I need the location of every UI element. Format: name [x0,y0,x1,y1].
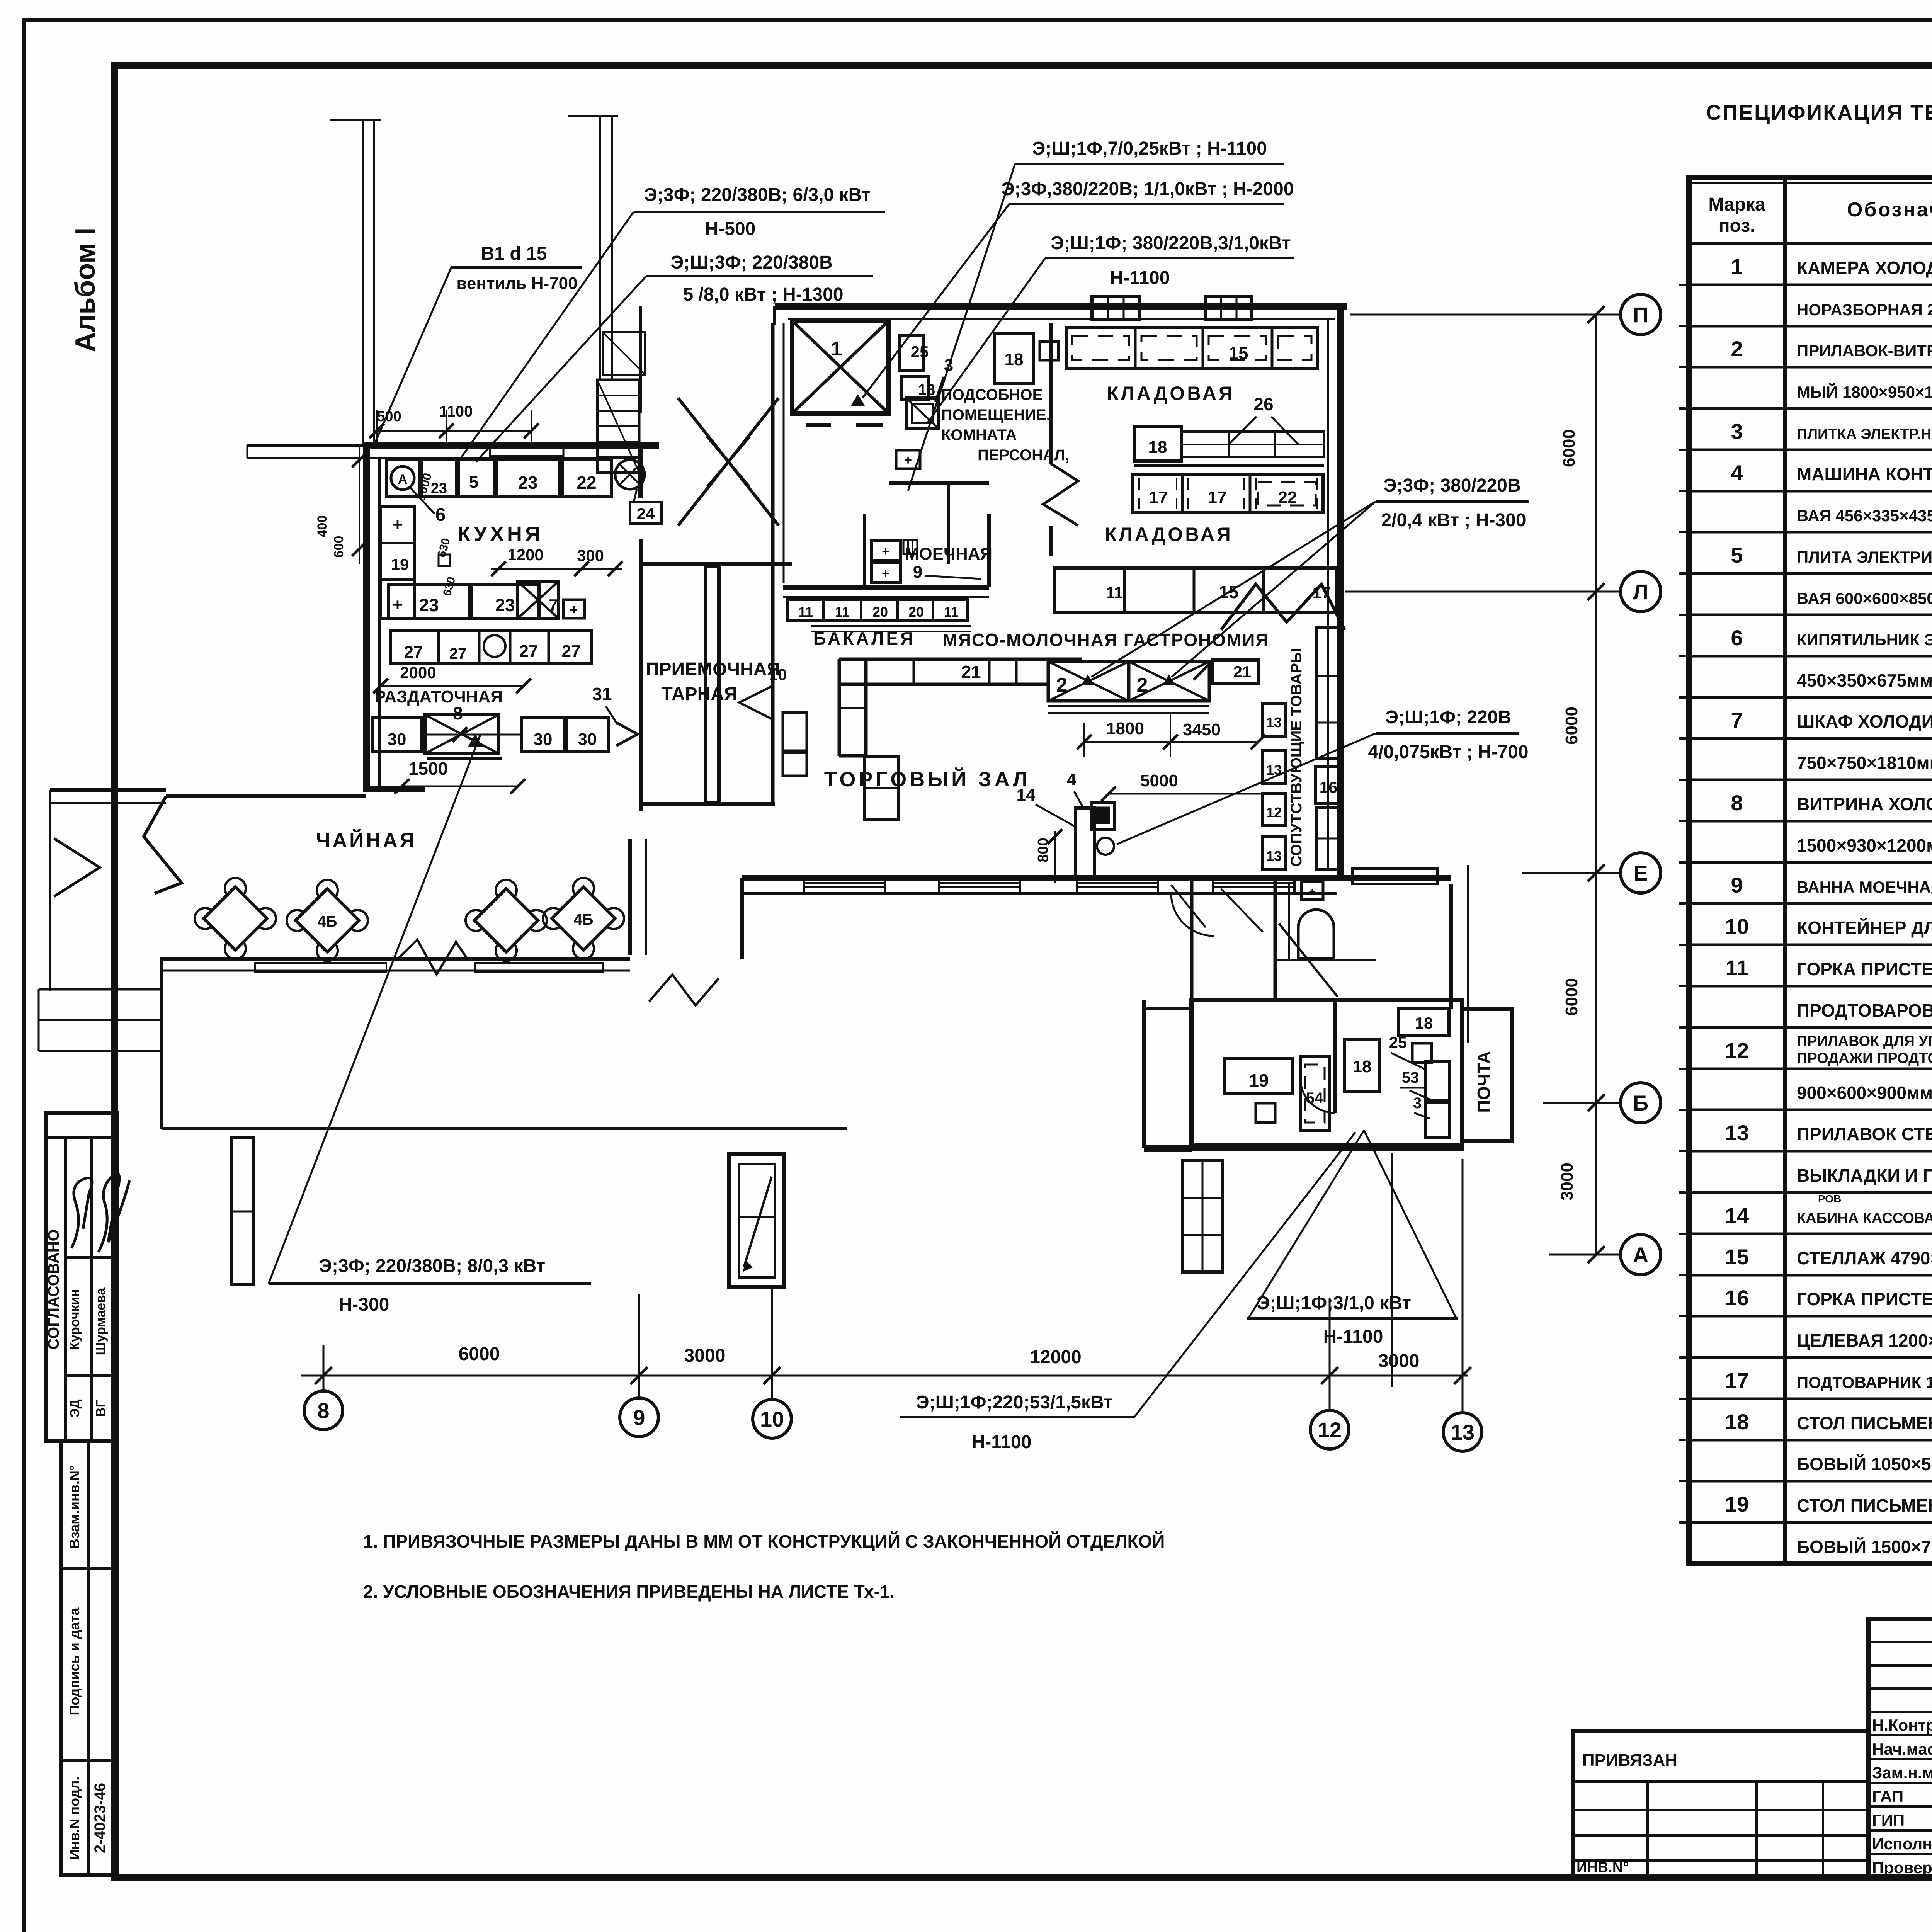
svg-text:6: 6 [435,505,446,525]
svg-text:СТОЛ ПИСЬМЕННЫЙ ОДНОТУМ-: СТОЛ ПИСЬМЕННЫЙ ОДНОТУМ- [1797,1413,1932,1433]
left break arrow [54,838,100,896]
svg-text:ПРОДАЖИ ПРОДТОВАРОВ: ПРОДАЖИ ПРОДТОВАРОВ [1797,1050,1932,1066]
svg-text:+: + [1309,886,1316,898]
label 24 box [630,502,662,524]
svg-text:СТЕЛЛАЖ 4790×1015×1900мм: СТЕЛЛАЖ 4790×1015×1900мм [1797,1248,1932,1268]
svg-text:1500: 1500 [408,759,448,779]
svg-text:27: 27 [562,642,581,661]
svg-text:+: + [882,544,889,559]
svg-text:21: 21 [961,662,981,682]
svg-text:900×600×900мм: 900×600×900мм [1797,1083,1932,1103]
svg-text:+: + [904,453,912,468]
svg-text:53: 53 [1402,1069,1419,1086]
svg-text:ГОРКА ПРИСТЕННАЯ МНОГО-: ГОРКА ПРИСТЕННАЯ МНОГО- [1797,1289,1932,1309]
svg-text:9: 9 [1731,873,1743,897]
svg-text:3000: 3000 [1558,1163,1577,1201]
svg-text:ЭД: ЭД [68,1399,82,1418]
svg-text:2: 2 [1137,674,1148,696]
svg-text:КАБИНА КАССОВАЯ 1400×800×1200: КАБИНА КАССОВАЯ 1400×800×1200 [1797,1210,1932,1226]
break zigzag right [1221,584,1345,630]
meat wall shelf row [1055,568,1337,612]
entrance porch axis 9-10 [729,1154,784,1287]
svg-text:5: 5 [1731,543,1743,567]
svg-text:РОВ: РОВ [1818,1193,1841,1205]
svg-text:8: 8 [317,1398,329,1423]
svg-text:24: 24 [637,505,655,523]
svg-text:ПЛИТКА ЭЛЕКТР.НАСТОЛЬНАЯ 1,0кВ: ПЛИТКА ЭЛЕКТР.НАСТОЛЬНАЯ 1,0кВт [1797,426,1932,442]
svg-text:ГАП: ГАП [1872,1787,1903,1805]
svg-text:6000: 6000 [1560,429,1578,467]
svg-text:СОПУТСТВУЮЩИЕ ТОВАРЫ: СОПУТСТВУЮЩИЕ ТОВАРЫ [1288,648,1305,867]
svg-text:МЯСО-МОЛОЧНАЯ ГАСТРОНОМИЯ: МЯСО-МОЛОЧНАЯ ГАСТРОНОМИЯ [943,630,1269,650]
svg-text:Э;3Ф; 220/380В; 8/0,3 кВт: Э;3Ф; 220/380В; 8/0,3 кВт [319,1256,545,1276]
svg-text:КЛАДОВАЯ: КЛАДОВАЯ [1107,383,1235,404]
svg-text:ПРИЛАВОК-ВИТРИНА ОХЛАЖДАЕ-: ПРИЛАВОК-ВИТРИНА ОХЛАЖДАЕ- [1797,342,1932,360]
kitchen top equipment row [386,460,419,497]
svg-text:ПРИЛАВОК СТЕКЛЯННЫЙ ДЛЯ: ПРИЛАВОК СТЕКЛЯННЫЙ ДЛЯ [1797,1124,1932,1144]
svg-text:11: 11 [1106,583,1123,602]
svg-text:ПРИЛАВОК ДЛЯ УПАКОВКИ И: ПРИЛАВОК ДЛЯ УПАКОВКИ И [1797,1033,1932,1049]
svg-text:Э;Ш;1Ф; 380/220В,3/1,0кВт: Э;Ш;1Ф; 380/220В,3/1,0кВт [1051,233,1291,253]
svg-text:Б: Б [1633,1091,1648,1115]
svg-text:10: 10 [769,665,787,684]
svg-text:ПОЧТА: ПОЧТА [1474,1051,1494,1113]
door arc pochta [1300,1078,1335,1113]
svg-text:750×750×1810мм 0,25кВт: 750×750×1810мм 0,25кВт [1797,753,1932,773]
svg-text:КОНТЕЙНЕР ДЛЯ ХЛЕБА: КОНТЕЙНЕР ДЛЯ ХЛЕБА [1797,918,1932,938]
svg-text:27: 27 [449,645,467,662]
svg-text:17: 17 [1725,1368,1749,1393]
vestibule walls [628,839,632,955]
svg-text:1. ПРИВЯЗОЧНЫЕ РАЗМЕРЫ ДАНЫ: 1. ПРИВЯЗОЧНЫЕ РАЗМЕРЫ ДАНЫ В ММ ОТ КОНС… [363,1531,1165,1551]
svg-text:Нач.мас: Нач.мас [1872,1740,1932,1758]
svg-text:Э;3Ф; 380/220В: Э;3Ф; 380/220В [1383,475,1520,496]
2-boxes with X [1048,662,1129,701]
box 16 and wall rack [1316,767,1342,804]
svg-text:поз.: поз. [1719,216,1755,236]
svg-text:ИНВ.N°: ИНВ.N° [1577,1859,1629,1876]
svg-text:1800: 1800 [1106,719,1144,738]
svg-text:Е: Е [1633,861,1648,885]
left strip: СОГЛАСОВАНО block [46,1113,117,1441]
svg-text:11: 11 [1725,956,1748,980]
svg-text:КУХНЯ: КУХНЯ [457,522,543,546]
svg-text:600: 600 [332,536,346,558]
svg-text:ГИП: ГИП [1872,1811,1905,1829]
svg-text:3000: 3000 [684,1345,726,1366]
right block top wall [775,303,1347,310]
svg-text:27: 27 [519,642,538,661]
wall between priem and bakaleya [771,323,775,806]
svg-text:ЧАЙНАЯ: ЧАЙНАЯ [316,829,417,852]
svg-text:6000: 6000 [459,1344,500,1364]
moechnaya room [783,585,989,590]
roof vent boxes on top wall [1092,297,1139,319]
svg-text:18: 18 [1148,438,1167,457]
svg-text:Инв.N подл.: Инв.N подл. [66,1777,82,1860]
cash cabin 14 [1076,808,1094,880]
stairwell east wall [639,306,642,413]
svg-text:30: 30 [578,730,597,749]
svg-text:4/0,075кВт ; Н-700: 4/0,075кВт ; Н-700 [1368,742,1528,762]
west wing wall [247,444,366,447]
svg-text:ТОРГОВЫЙ ЗАЛ: ТОРГОВЫЙ ЗАЛ [824,767,1031,791]
pochta interior [1225,1059,1293,1094]
svg-text:27: 27 [404,643,423,662]
svg-text:Зам.н.м.: Зам.н.м. [1872,1764,1932,1782]
svg-text:ВГ: ВГ [94,1400,108,1417]
svg-text:РАЗДАТОЧНАЯ: РАЗДАТОЧНАЯ [374,687,503,706]
svg-text:9: 9 [913,563,922,582]
svg-text:15: 15 [1228,343,1248,363]
svg-text:16: 16 [1320,778,1338,796]
chaynaya [166,794,366,798]
svg-text:1: 1 [1731,254,1743,279]
svg-text:КОМНАТА: КОМНАТА [941,427,1017,444]
svg-text:2: 2 [1056,674,1068,696]
svg-text:3000: 3000 [1378,1351,1420,1371]
svg-text:12000: 12000 [1030,1347,1081,1367]
svg-text:П: П [1633,303,1648,327]
svg-text:Н-1100: Н-1100 [972,1432,1032,1452]
row 17 17 22 [1133,474,1323,513]
right axes [1595,315,1597,1255]
svg-text:20: 20 [872,604,888,620]
extension line below pochta [1391,1153,1393,1387]
dim 1200 300 [491,568,622,570]
svg-text:25: 25 [911,343,929,361]
svg-text:18: 18 [1005,350,1024,369]
SE wing east wall [1449,884,1453,1009]
svg-text:2/0,4 кВт ; Н-300: 2/0,4 кВт ; Н-300 [1381,510,1526,531]
bread containers [783,713,807,751]
svg-text:17: 17 [1149,488,1168,507]
svg-text:Э;Ш;3Ф; 220/380В: Э;Ш;3Ф; 220/380В [670,252,833,273]
svg-text:1100: 1100 [439,403,473,420]
svg-text:3: 3 [1731,419,1743,444]
svg-text:Взам.инв.N°: Взам.инв.N° [66,1465,82,1549]
svg-text:ВАЯ 600×600×850мм 8,0кВт: ВАЯ 600×600×850мм 8,0кВт [1797,589,1932,607]
twin box below counter [864,757,898,819]
svg-text:23: 23 [495,595,515,615]
svg-text:Л: Л [1633,580,1648,604]
svg-text:300: 300 [577,546,604,565]
svg-text:14: 14 [1725,1203,1749,1228]
svg-text:22: 22 [577,473,596,493]
svg-text:450×350×675мм 3,0кВт: 450×350×675мм 3,0кВт [1797,670,1932,690]
svg-text:11: 11 [944,604,959,620]
svg-text:23: 23 [419,595,439,615]
svg-text:ПЕРСОНАЛ,: ПЕРСОНАЛ, [978,447,1070,464]
svg-text:18: 18 [1415,1014,1433,1032]
svg-text:КИПЯТИЛЬНИК ЭЛЕКТРИЧЕСКИЙ: КИПЯТИЛЬНИК ЭЛЕКТРИЧЕСКИЙ [1797,630,1932,649]
svg-text:4: 4 [1731,461,1743,485]
svg-text:Н-500: Н-500 [705,219,756,239]
svg-text:ВАННА МОЕЧНАЯ 630×630×860: ВАННА МОЕЧНАЯ 630×630×860 [1797,878,1932,896]
svg-text:ШКАФ ХОЛОДИЛЬНЫЙ: ШКАФ ХОЛОДИЛЬНЫЙ [1797,711,1932,731]
svg-text:ПЛИТА ЭЛЕКТРИЧЕСКАЯ БЫТО-: ПЛИТА ЭЛЕКТРИЧЕСКАЯ БЫТО- [1797,548,1932,566]
svg-text:26: 26 [1253,394,1273,414]
tarnaya wall bar [706,566,719,803]
svg-text:Э;Ш;1Ф;3/1,0 кВт: Э;Ш;1Ф;3/1,0 кВт [1257,1293,1411,1313]
desk 18 in podsobnoe [995,333,1033,383]
svg-text:Провер.: Провер. [1872,1859,1932,1877]
svg-text:4Б: 4Б [574,911,594,928]
svg-text:Э;Ш;1Ф,7/0,25кВт ; Н-1100: Э;Ш;1Ф,7/0,25кВт ; Н-1100 [1032,138,1267,159]
svg-text:13: 13 [1266,848,1282,864]
svg-text:Шурмаева: Шурмаева [94,1287,108,1355]
svg-text:А: А [1633,1243,1648,1267]
svg-text:2000: 2000 [400,663,436,682]
kitchen dims top [377,430,531,432]
door arc hall exit [1171,893,1214,936]
exit vestibule west of pochta [1142,1000,1146,1148]
svg-text:1: 1 [831,338,842,360]
svg-text:22: 22 [1278,488,1297,507]
west wing of tea room [50,788,166,792]
svg-text:30: 30 [388,730,406,749]
svg-text:15: 15 [1725,1245,1749,1269]
svg-text:12: 12 [1725,1038,1749,1063]
svg-text:КЛАДОВАЯ: КЛАДОВАЯ [1105,524,1233,545]
svg-text:ВЫКЛАДКИ И ПРОДАЖИ ТОВА-: ВЫКЛАДКИ И ПРОДАЖИ ТОВА- [1797,1165,1932,1185]
svg-text:A: A [398,472,408,487]
svg-text:Подпись и дата: Подпись и дата [66,1607,82,1716]
svg-text:СОГЛАСОВАНО: СОГЛАСОВАНО [45,1229,62,1349]
svg-text:+: + [882,566,889,581]
fan symbol [615,460,645,489]
svg-text:2: 2 [1731,337,1743,361]
svg-text:СПЕЦИФИКАЦИЯ ТЕХНОЛОГИЧЕСКОГО: СПЕЦИФИКАЦИЯ ТЕХНОЛОГИЧЕСКОГО ОБОРУДОВАН… [1706,100,1932,124]
podsobnoe partition walls [1049,323,1053,464]
svg-text:10: 10 [760,1407,784,1431]
svg-text:13: 13 [1266,714,1282,730]
pochta block [1192,1000,1462,1148]
cold chamber room 1 (X box) [792,321,889,413]
svg-text:18: 18 [918,381,935,398]
svg-text:СТОЛ ПИСЬМЕННЫЙ ДВУХТУМ-: СТОЛ ПИСЬМЕННЫЙ ДВУХТУМ- [1797,1495,1932,1515]
svg-text:Э;3Ф,380/220В; 1/1,0кВт ; Н-20: Э;3Ф,380/220В; 1/1,0кВт ; Н-2000 [1001,179,1294,199]
svg-text:ПОДСОБНОЕ: ПОДСОБНОЕ [941,386,1043,403]
kitchen left column (sinks) [381,506,415,618]
svg-text:3450: 3450 [1183,720,1221,739]
svg-text:19: 19 [391,555,409,573]
svg-text:Марка: Марка [1708,194,1765,215]
svg-text:Н-1100: Н-1100 [1110,268,1170,288]
wc zone [1301,882,1323,900]
left strip: Инв/Подпись block [61,1441,117,1875]
svg-text:Обозначение: Обозначение [1847,199,1932,221]
svg-text:ВАЯ 456×335×435мм 0,075кВт: ВАЯ 456×335×435мм 0,075кВт [1797,507,1932,525]
svg-text:25: 25 [1389,1033,1407,1051]
svg-text:9: 9 [633,1405,645,1430]
svg-text:Э;Ш;1Ф; 220В: Э;Ш;1Ф; 220В [1385,707,1511,728]
kitchen window sill [490,447,563,456]
svg-text:ТАРНАЯ: ТАРНАЯ [662,684,738,704]
svg-text:1200: 1200 [507,546,543,564]
svg-text:6: 6 [1731,626,1743,650]
svg-text:2-4023-46: 2-4023-46 [92,1783,109,1853]
kitchen mid row [388,584,469,618]
title block: left small grid [1573,1731,1868,1878]
box 25 and 18 (podsobnoe) [900,335,923,370]
svg-text:ПРОДТОВАРОВ: ПРОДТОВАРОВ [1797,1000,1932,1020]
svg-text:20: 20 [908,604,924,620]
svg-text:400: 400 [315,515,330,537]
svg-text:11: 11 [835,604,850,620]
svg-text:30: 30 [534,730,553,749]
svg-text:5000: 5000 [1140,771,1178,790]
svg-text:+: + [393,515,403,534]
svg-text:Исполн.: Исполн. [1872,1835,1932,1853]
svg-text:10: 10 [1725,914,1749,939]
kladovaya 1 shelves row 15 [1066,327,1318,368]
svg-text:Э;3Ф; 220/380В; 6/3,0 кВт: Э;3Ф; 220/380В; 6/3,0 кВт [644,185,871,205]
svg-text:вентиль Н-700: вентиль Н-700 [456,274,577,293]
svg-text:Н-1100: Н-1100 [1323,1327,1383,1347]
svg-text:13: 13 [1725,1121,1749,1145]
svg-text:Н-300: Н-300 [339,1294,389,1315]
row of 27 boxes [390,631,591,663]
svg-text:БАКАЛЕЯ: БАКАЛЕЯ [813,628,915,648]
svg-text:18: 18 [1725,1410,1749,1434]
stairs [597,380,639,473]
stack 13 13 12 13 [1262,703,1286,736]
svg-text:31: 31 [592,684,612,704]
hall door [1171,885,1206,927]
kitchen outer walls [363,442,659,449]
svg-text:17: 17 [1208,488,1227,507]
svg-text:7: 7 [549,596,558,614]
svg-text:+: + [570,602,578,617]
svg-text:ПОДТОВАРНИК 1200×800×125мм: ПОДТОВАРНИК 1200×800×125мм [1797,1373,1932,1391]
svg-text:ПОМЕЩЕНИЕ.: ПОМЕЩЕНИЕ. [941,406,1051,423]
svg-text:НОРАЗБОРНАЯ 2100×2100×2585;: НОРАЗБОРНАЯ 2100×2100×2585; [1797,301,1932,319]
title block: signature table [1868,1619,1932,1878]
svg-text:23: 23 [431,480,447,497]
svg-text:6000: 6000 [1562,978,1581,1016]
counter 21 row [839,658,1082,661]
svg-text:БОВЫЙ 1050×500×675мм: БОВЫЙ 1050×500×675мм [1797,1454,1932,1474]
water riser B1 [362,120,364,444]
svg-text:5: 5 [469,473,478,492]
corridor wall below stairs [641,562,792,566]
svg-text:Альбом I: Альбом I [70,228,101,352]
right 21 box [1212,660,1258,683]
svg-text:Н.Контр.: Н.Контр. [1872,1716,1932,1734]
chimney shaft [599,116,601,381]
svg-text:21: 21 [1233,663,1252,681]
svg-text:В1 d 15: В1 d 15 [481,243,547,264]
photo break X at corridor [678,398,779,526]
serving row 30-8-30-30 [373,717,421,752]
svg-text:7: 7 [1731,708,1743,732]
bakaleya row [787,599,968,621]
right outer wall [1337,306,1344,881]
svg-text:4Б: 4Б [318,913,337,930]
svg-text:54: 54 [1306,1090,1323,1107]
svg-text:КАМЕРА ХОЛОДИЛЬНАЯ СБОР-: КАМЕРА ХОЛОДИЛЬНАЯ СБОР- [1797,258,1932,278]
porch ramp left of pochta [1182,1161,1223,1272]
svg-text:13: 13 [1451,1420,1475,1444]
svg-text:+: + [393,595,403,614]
svg-text:19: 19 [1249,1070,1269,1090]
svg-text:ПРИВЯЗАН: ПРИВЯЗАН [1582,1751,1677,1770]
svg-text:12: 12 [1266,804,1282,820]
svg-text:МОЕЧНАЯ: МОЕЧНАЯ [905,544,992,563]
svg-text:1500×930×1200мм 0,33кВт: 1500×930×1200мм 0,33кВт [1797,835,1932,855]
svg-text:ПРИЕМОЧНАЯ: ПРИЕМОЧНАЯ [646,659,780,680]
svg-text:БОВЫЙ 1500×750×730мм: БОВЫЙ 1500×750×730мм [1797,1537,1932,1557]
svg-text:8: 8 [1731,791,1743,815]
svg-text:ЦЕЛЕВАЯ 1200×550×2150мм: ЦЕЛЕВАЯ 1200×550×2150мм [1797,1330,1932,1350]
bottom axes [301,1375,1468,1377]
tea room porch [231,1138,253,1285]
dim 5000 [1109,793,1262,795]
svg-text:19: 19 [1725,1492,1749,1516]
svg-text:ГОРКА ПРИСТЕННАЯ ДЛЯ: ГОРКА ПРИСТЕННАЯ ДЛЯ [1797,959,1932,979]
svg-text:16: 16 [1725,1286,1749,1310]
dims 1800 3450 [1084,741,1258,743]
svg-text:4: 4 [1067,770,1077,789]
svg-text:2. УСЛОВНЫЕ ОБОЗНАЧЕНИЯ ПР: 2. УСЛОВНЫЕ ОБОЗНАЧЕНИЯ ПРИВЕДЕНЫ НА ЛИС… [363,1582,895,1602]
svg-text:3: 3 [1413,1095,1422,1112]
south wall of hall with windows [742,875,1451,881]
svg-text:МАШИНА КОНТРОЛЬНО-КАССО-: МАШИНА КОНТРОЛЬНО-КАССО- [1797,464,1932,484]
svg-text:11: 11 [798,604,813,620]
svg-text:МЫЙ 1800×950×1200мм 0,5кВт: МЫЙ 1800×950×1200мм 0,5кВт [1797,383,1932,401]
svg-text:18: 18 [1353,1057,1372,1076]
svg-text:23: 23 [518,473,537,493]
spec table grid [1689,177,1932,1564]
tea tables [195,908,216,929]
svg-text:12: 12 [1318,1418,1342,1442]
svg-text:6000: 6000 [1562,707,1581,745]
shelf 18 + 26 [1134,426,1181,461]
svg-text:Курочкин: Курочкин [68,1289,82,1350]
svg-text:Э;Ш;1Ф;220;53/1,5кВт: Э;Ш;1Ф;220;53/1,5кВт [916,1392,1112,1413]
svg-text:5 /8,0 кВт ; Н-1300: 5 /8,0 кВт ; Н-1300 [683,284,843,305]
svg-text:ВИТРИНА ХОЛОДИЛЬНАЯ: ВИТРИНА ХОЛОДИЛЬНАЯ [1797,794,1932,814]
signature squiggles [71,1178,92,1248]
svg-text:8: 8 [453,703,463,723]
